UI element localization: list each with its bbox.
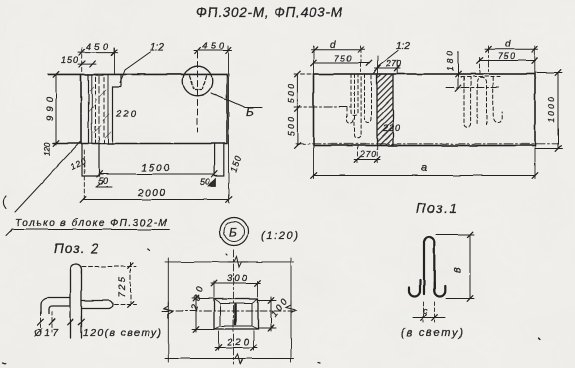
svg-text:990: 990 xyxy=(45,96,56,121)
svg-text:1:2: 1:2 xyxy=(150,42,164,53)
svg-text:300: 300 xyxy=(227,273,248,284)
svg-text:220: 220 xyxy=(226,337,250,348)
svg-text:500: 500 xyxy=(286,117,296,136)
svg-text:a: a xyxy=(421,162,427,174)
svg-text:450: 450 xyxy=(202,41,224,51)
svg-text:120: 120 xyxy=(43,142,52,156)
svg-text:1500: 1500 xyxy=(141,163,169,174)
svg-text:120(в свету): 120(в свету) xyxy=(83,327,161,339)
svg-text:450: 450 xyxy=(86,42,108,52)
svg-text:725: 725 xyxy=(117,276,128,297)
svg-text:Поз. 2: Поз. 2 xyxy=(54,241,98,256)
svg-text:d: d xyxy=(505,39,511,50)
svg-text:Ø17: Ø17 xyxy=(33,328,58,339)
svg-text:Б: Б xyxy=(229,226,237,240)
svg-text:500: 500 xyxy=(286,84,296,103)
svg-text:220: 220 xyxy=(115,109,137,120)
svg-text:750: 750 xyxy=(498,51,515,61)
svg-text:Поз.1: Поз.1 xyxy=(416,201,457,216)
svg-text:270: 270 xyxy=(385,58,401,68)
svg-text:220: 220 xyxy=(382,123,400,133)
svg-text:ФП.302-М, ФП.403-М: ФП.302-М, ФП.403-М xyxy=(196,5,343,20)
svg-text:270: 270 xyxy=(359,149,376,159)
svg-text:в: в xyxy=(451,267,463,273)
svg-text:с: с xyxy=(423,306,428,316)
svg-text:d: d xyxy=(330,40,336,51)
svg-text:Б: Б xyxy=(246,105,254,119)
svg-text:750: 750 xyxy=(334,54,351,64)
svg-text:180: 180 xyxy=(445,51,455,71)
svg-text:150: 150 xyxy=(61,55,78,65)
